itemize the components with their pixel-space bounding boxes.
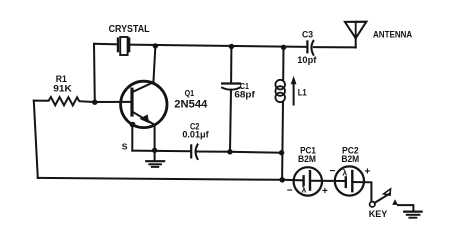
svg-text:+: + — [364, 166, 370, 177]
svg-text:0.01μf: 0.01μf — [182, 130, 209, 140]
arrow L1 adjustable — [291, 76, 297, 105]
svg-text:λ: λ — [302, 185, 307, 195]
wire bottom long — [38, 178, 282, 180]
node emitter junction — [152, 148, 157, 153]
capacitor C1 — [222, 47, 240, 152]
inductor L1 — [275, 47, 285, 180]
key switch — [370, 189, 398, 207]
wire shield lead vertical — [131, 125, 133, 151]
resistor R1 — [34, 97, 95, 105]
node C1 top junction — [229, 44, 234, 49]
capacitor C2 — [191, 145, 197, 160]
wire emitter row far right — [230, 151, 282, 154]
photocell PC1 — [294, 167, 322, 195]
svg-text:2N544: 2N544 — [174, 98, 208, 110]
wire emitter row right — [196, 151, 230, 153]
node bottom PC junction — [279, 177, 285, 183]
transistor Q1 — [121, 46, 167, 127]
ground right — [404, 212, 421, 218]
capacitor C3 — [307, 41, 313, 55]
wire PC1 to PC2 — [310, 180, 346, 182]
wire top main (crystal to C3) — [129, 45, 307, 47]
node base junction — [92, 100, 97, 105]
node L1 bottom junction — [279, 150, 284, 155]
svg-text:−: − — [287, 185, 293, 196]
svg-text:S: S — [122, 141, 128, 151]
svg-text:ANTENNA: ANTENNA — [373, 30, 413, 40]
svg-text:R1: R1 — [56, 74, 67, 84]
ground under emitter — [146, 150, 164, 167]
svg-text:+: + — [322, 186, 328, 197]
wire crystal branch vertical — [93, 44, 96, 103]
svg-text:91K: 91K — [53, 84, 72, 94]
svg-text:Q1: Q1 — [185, 88, 195, 98]
wire top left segment (crystal left lead) — [94, 43, 118, 46]
svg-text:C3: C3 — [302, 28, 313, 39]
wire emitter vertical — [154, 125, 156, 150]
node L1 top junction — [281, 45, 286, 50]
wire base lead — [95, 101, 131, 103]
wire emitter row left — [132, 150, 190, 153]
wire C3 to antenna — [314, 46, 356, 48]
wire PC2 to key — [352, 182, 371, 202]
svg-text:68pf: 68pf — [234, 90, 255, 100]
svg-text:B2M: B2M — [341, 154, 359, 164]
photocell PC2 — [335, 166, 364, 195]
svg-text:KEY: KEY — [369, 208, 388, 219]
crystal XTAL — [118, 37, 129, 55]
node collector junction — [153, 43, 158, 48]
wire to PC1 — [282, 179, 303, 182]
wire left vertical — [34, 101, 38, 178]
svg-text:B2M: B2M — [298, 154, 316, 164]
node shield lead on case — [130, 122, 136, 128]
svg-text:L1: L1 — [298, 87, 307, 97]
antenna — [345, 22, 367, 48]
svg-text:10pf: 10pf — [297, 55, 317, 65]
node C1 bottom junction — [227, 149, 232, 154]
svg-text:−: − — [329, 166, 335, 177]
svg-text:CRYSTAL: CRYSTAL — [109, 24, 150, 35]
wire key to ground — [398, 205, 413, 211]
svg-text:λ: λ — [342, 167, 347, 177]
